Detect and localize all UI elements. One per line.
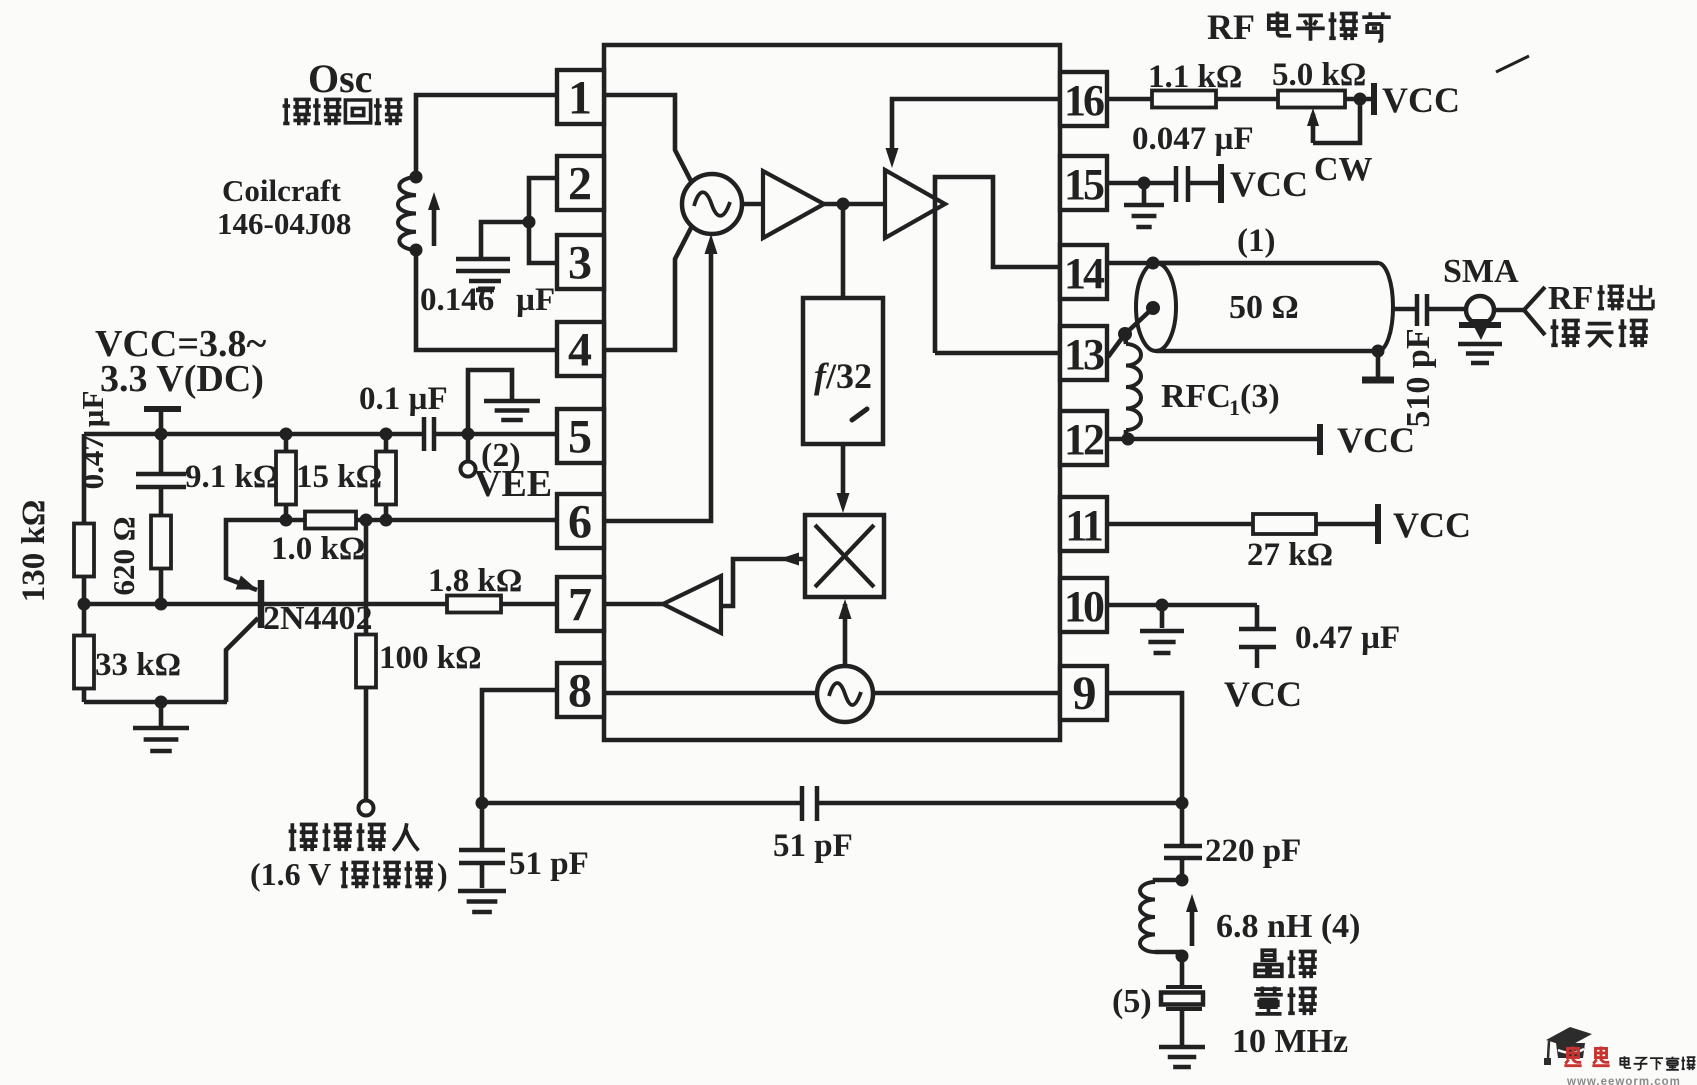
wire pin14 to coax: [1107, 261, 1200, 266]
logo www.eeworm.com: [1566, 1076, 1681, 1085]
node dot 51pF junction: [476, 797, 489, 810]
svg-text:RF: RF: [1207, 7, 1255, 47]
VCC bar pin12: [1317, 424, 1323, 455]
wire pin9 external: [1107, 693, 1182, 803]
label VEE: [474, 463, 552, 505]
label 0.146 uF: [420, 282, 555, 318]
divider f/32 box: [803, 298, 883, 444]
wire pin16 feedback with down arrow into A2: [886, 99, 1061, 168]
svg-text:6.8 nH (4): 6.8 nH (4): [1216, 908, 1361, 945]
svg-text:7: 7: [568, 579, 592, 632]
oscillator U1a circle: [682, 174, 742, 234]
wire pin12 to VCC: [1107, 437, 1320, 442]
ground under collector node: [133, 702, 189, 751]
wire crystal to ground: [1180, 1009, 1185, 1045]
wire 220pF to L3: [1180, 858, 1185, 880]
wire rail left down: [82, 434, 87, 524]
crystal Y1 plates: [1161, 987, 1203, 1009]
resistor R9 1.1k: [1152, 91, 1216, 108]
svg-text:8: 8: [568, 665, 592, 718]
svg-text:16: 16: [1064, 76, 1104, 125]
pin 11 box: [1060, 497, 1107, 551]
wire C6 to VCC: [1188, 181, 1221, 186]
svg-text:3.3 V(DC): 3.3 V(DC): [100, 358, 264, 400]
svg-text:33 kΩ: 33 kΩ: [95, 647, 181, 683]
label 146-04J08: [217, 206, 351, 241]
label VCC pin11: [1393, 505, 1471, 545]
svg-text:5: 5: [568, 411, 592, 464]
node dot under 15k: [380, 514, 393, 527]
wire coax to 510pF: [1392, 307, 1417, 312]
wire node to pin13: [1108, 334, 1125, 357]
label RFC1(3): [1161, 378, 1280, 420]
arrow L3 tuning up: [1186, 894, 1198, 946]
VEE terminal circle: [461, 434, 476, 477]
label 10 MHz: [1232, 1023, 1348, 1060]
arrow L1 tuning up: [428, 192, 440, 246]
label VCC=3.8~: [95, 323, 266, 365]
svg-text:Coilcraft: Coilcraft: [222, 173, 341, 208]
svg-text:100 kΩ: 100 kΩ: [379, 640, 482, 676]
label 3.3 V(DC): [100, 358, 264, 400]
wire pin10 external: [1107, 603, 1257, 608]
SMA center pin wedge: [1470, 319, 1491, 340]
resistor R8 100k: [356, 635, 376, 688]
resistor R2 33k: [74, 604, 94, 702]
wire A2 output step to pin14: [935, 177, 1060, 353]
node dot rail at 9.1k: [280, 428, 293, 441]
VCC bar pin11: [1375, 504, 1381, 544]
svg-text:2N4402: 2N4402: [263, 600, 373, 637]
wire mixer output to buffer with left arrow: [721, 553, 805, 607]
VCC bar pin15: [1218, 164, 1224, 203]
svg-text:VEE: VEE: [474, 463, 552, 505]
node dot emitter: [280, 514, 293, 527]
wire 100k branch: [364, 520, 369, 635]
label Coilcraft: [222, 173, 341, 208]
svg-text:www.eeworm.com: www.eeworm.com: [1566, 1076, 1681, 1085]
ground float above pin5: [468, 370, 540, 434]
capacitor C6 0.047uF plates: [1176, 166, 1188, 202]
pin 15 box: [1060, 156, 1107, 210]
wire 100k to data input: [364, 687, 369, 800]
svg-text:1: 1: [568, 72, 592, 125]
amplifier A2 triangle: [885, 170, 945, 238]
resistor R11 27k: [1253, 514, 1316, 534]
svg-text:6: 6: [568, 496, 592, 549]
node dot coax bottom right: [1372, 345, 1385, 358]
node dot pin9 junction: [1176, 797, 1189, 810]
svg-text:µF: µF: [516, 282, 555, 318]
capacitor C4 51pF plates: [802, 786, 817, 821]
pen mark in f/32 box: [852, 409, 867, 420]
label 51 pF mid: [773, 828, 853, 864]
pin 7 box: [557, 577, 604, 632]
wire R9 to pot: [1216, 97, 1278, 102]
svg-text:1.1 kΩ: 1.1 kΩ: [1148, 59, 1242, 95]
VCC supply bar: [144, 409, 181, 434]
wire R1 to base node: [82, 577, 87, 604]
SMA ground bar: [1459, 322, 1501, 328]
svg-text:(5): (5): [1112, 983, 1152, 1020]
svg-text:27 kΩ: 27 kΩ: [1247, 537, 1333, 573]
label CW: [1314, 151, 1373, 188]
data input terminal circle: [359, 801, 374, 816]
resistor R7 1.0k: [305, 512, 356, 529]
node dot rail at 15k: [380, 428, 393, 441]
label 到天线: [1551, 319, 1648, 347]
node dot base-mid: [155, 598, 168, 611]
label 2N4402: [263, 600, 373, 637]
wire to 220pF: [1180, 803, 1185, 845]
label 0.047 uF: [1132, 121, 1254, 157]
ground bar under coax: [1362, 351, 1394, 380]
label VCC under C8: [1224, 674, 1302, 714]
label 0.1 uF: [359, 381, 448, 417]
wire 51pF coupling line: [482, 801, 1182, 806]
svg-text:VCC: VCC: [1224, 674, 1302, 714]
transistor Q1 collector: [226, 618, 258, 702]
label 数据输入: [289, 823, 419, 851]
svg-text:15 kΩ: 15 kΩ: [296, 459, 382, 495]
wire L3 to crystal: [1180, 956, 1185, 986]
wire pin4 to oscillator: [604, 226, 692, 350]
svg-text:510 pF: 510 pF: [1400, 328, 1437, 427]
svg-text:13: 13: [1064, 330, 1104, 379]
pin 12 box: [1060, 411, 1107, 465]
node dot rail after cap: [462, 428, 475, 441]
wire pin6 to oscillator with up arrow: [604, 234, 718, 521]
node dot pin12: [1122, 433, 1135, 446]
node dot coax top: [1147, 257, 1160, 270]
capacitor C2 0.1uF plates: [424, 417, 434, 451]
logo 虫虫 red: [1564, 1046, 1609, 1065]
capacitor C3 0.47uF: [136, 434, 186, 516]
label SMA: [1443, 253, 1519, 290]
wire amp A1 to junction: [824, 202, 885, 207]
node junction dot: [837, 198, 850, 211]
wire pin1 to tank: [416, 95, 557, 177]
label 峰峰值: [341, 861, 433, 888]
capacitor C5 51pF shunt: [459, 803, 505, 888]
svg-text:0.47 µF: 0.47 µF: [75, 391, 110, 490]
label 50 Ohm: [1229, 289, 1299, 326]
label 5.0 kOhm: [1272, 57, 1366, 93]
wire node to capacitor C1: [481, 222, 529, 257]
node dot pin10: [1156, 599, 1169, 612]
wire pin8 to pin9 internal: [604, 691, 1060, 696]
logo 电子下载站: [1620, 1056, 1695, 1070]
wire 510pF to SMA: [1427, 307, 1466, 312]
wire pot to VCC: [1345, 97, 1374, 102]
capacitor C9 220pF plates: [1164, 846, 1202, 858]
svg-text:RF: RF: [1548, 280, 1593, 317]
label 谐振回路: [283, 98, 403, 125]
svg-text:51 pF: 51 pF: [773, 828, 853, 864]
svg-text:VCC: VCC: [1393, 505, 1471, 545]
label 0.47 uF right: [1295, 620, 1400, 656]
svg-text:3: 3: [568, 237, 592, 290]
wire pin15 external: [1107, 181, 1176, 186]
arrow f/32 to mixer: [837, 444, 850, 513]
potentiometer R10 5.0k: [1278, 91, 1345, 108]
buffer A3 triangle: [663, 576, 721, 633]
svg-text:10 MHz: 10 MHz: [1232, 1023, 1348, 1060]
pin 10 box: [1060, 578, 1107, 632]
svg-text:SMA: SMA: [1443, 253, 1519, 290]
label 基波: [1254, 987, 1317, 1016]
coax cable body: [1153, 263, 1393, 351]
arrow osc2 to mixer: [839, 599, 852, 666]
node dot rail at 130k: [155, 428, 168, 441]
svg-text:51 pF: 51 pF: [509, 846, 589, 882]
inductor L3 6.8nH coil: [1140, 880, 1182, 952]
svg-text:VCC: VCC: [1382, 80, 1460, 120]
label 6.8 nH (4): [1216, 908, 1361, 945]
wire SMA to output: [1494, 308, 1524, 313]
node dot pot end: [1354, 93, 1367, 106]
ground under C5: [458, 891, 506, 912]
node dot L3 bottom: [1176, 950, 1189, 963]
ground under pin10 dot: [1140, 605, 1184, 653]
inductor L1 Coilcraft coil: [398, 177, 416, 250]
wire bottom to collector: [84, 700, 227, 705]
label (1.6 V peak: [250, 856, 331, 892]
scan mark top: [1496, 56, 1529, 72]
svg-text:0.1 µF: 0.1 µF: [359, 381, 448, 417]
svg-text:2: 2: [568, 158, 592, 211]
label VCC pin12: [1337, 420, 1415, 460]
wire buffer to pin7: [604, 602, 663, 607]
svg-text:5.0 kΩ: 5.0 kΩ: [1272, 57, 1366, 93]
label 1.1 kOhm: [1148, 59, 1242, 95]
coax inner conductor dot: [1146, 301, 1160, 315]
svg-text:1: 1: [1229, 395, 1240, 420]
wire step to pin13: [935, 351, 1060, 356]
wire tank to pin4: [416, 250, 557, 350]
ground under pin15 dot: [1124, 183, 1164, 227]
node dot pin15: [1138, 177, 1151, 190]
resistor R3 620: [151, 516, 171, 605]
inductor L2 RFC coil: [1125, 334, 1141, 439]
svg-text:12: 12: [1064, 415, 1104, 464]
pot wiper arrow: [1307, 99, 1360, 143]
svg-text:4: 4: [568, 324, 592, 377]
wire inner to node: [1125, 308, 1153, 334]
label 15 kOhm: [296, 459, 382, 495]
pin 5 box: [557, 409, 604, 464]
label 220 pF: [1205, 833, 1301, 869]
svg-text:0.47 µF: 0.47 µF: [1295, 620, 1400, 656]
label VCC pin15: [1230, 164, 1308, 204]
svg-text:): ): [437, 856, 448, 892]
label RF输出: [1548, 280, 1653, 317]
node dot L3 top: [1176, 874, 1189, 887]
SMA connector circle: [1466, 296, 1494, 324]
label 0.47 uF: [75, 391, 110, 490]
coax left ellipse: [1136, 263, 1176, 351]
wire junction to f/32: [841, 204, 846, 298]
capacitor C8 0.47uF: [1239, 605, 1276, 668]
svg-text:1.8 kΩ: 1.8 kΩ: [428, 563, 522, 599]
IC body MC2833 outline: [604, 45, 1060, 740]
amplifier A1 triangle: [763, 171, 824, 238]
pin 3 box: [557, 235, 604, 290]
wire node to pin2: [529, 178, 557, 222]
wire pin8 external: [482, 690, 557, 803]
ground under crystal: [1159, 1047, 1205, 1067]
svg-text:15: 15: [1064, 160, 1104, 209]
label 51 pF left: [509, 846, 589, 882]
svg-text:RFC: RFC: [1161, 378, 1231, 415]
VCC rail wire: [84, 432, 557, 437]
node dot pins2-3: [523, 216, 536, 229]
transistor Q1 emitter with arrow: [226, 520, 286, 590]
label 100 kOhm: [379, 640, 482, 676]
label (1): [1237, 223, 1275, 259]
label 510 pF: [1400, 328, 1437, 427]
pin 8 box: [557, 663, 604, 718]
capacitor C1 0.146uF plates: [456, 259, 510, 271]
RF output chevron: [1524, 287, 1545, 335]
resistor R5 9.1k: [276, 434, 296, 520]
label 620 Ohm: [106, 516, 141, 595]
svg-text:146-04J08: 146-04J08: [217, 206, 351, 241]
pin 2 box: [557, 156, 604, 211]
pin 13 box: [1060, 326, 1107, 380]
wire osc to amp: [742, 202, 763, 207]
svg-text:220 pF: 220 pF: [1205, 833, 1301, 869]
node dot tank bottom: [410, 244, 423, 257]
svg-text:0.047 µF: 0.047 µF: [1132, 121, 1254, 157]
svg-text:1.0 kΩ: 1.0 kΩ: [271, 531, 365, 567]
label close paren: [437, 856, 448, 892]
VCC bar pin16: [1371, 83, 1377, 115]
ground under SMA: [1458, 344, 1502, 363]
wire node to pin3: [529, 222, 557, 263]
transistor Q1 2N4402 base bar: [258, 580, 265, 628]
wire R11 to VCC: [1316, 522, 1376, 527]
pin 16 box: [1060, 72, 1107, 126]
label 1.8 kOhm: [428, 563, 522, 599]
svg-text:f/32: f/32: [814, 356, 872, 396]
svg-text:9: 9: [1073, 667, 1096, 720]
wire pin16 to R9: [1107, 97, 1152, 102]
svg-text:VCC: VCC: [1230, 164, 1308, 204]
label 33 kOhm: [95, 647, 181, 683]
resistor R4 1.8k: [447, 596, 501, 613]
node dot tank top: [410, 171, 423, 184]
pin 9 box: [1060, 666, 1107, 720]
label (5): [1112, 983, 1152, 1020]
svg-text:10: 10: [1064, 582, 1104, 631]
svg-text:9.1 kΩ: 9.1 kΩ: [185, 459, 279, 495]
label 晶振: [1255, 950, 1317, 978]
wire pin11 to R11: [1107, 522, 1253, 527]
label 27 kOhm: [1247, 537, 1333, 573]
node dot after 1.0k: [360, 514, 373, 527]
svg-text:(1): (1): [1237, 223, 1275, 259]
node dot base-left: [78, 598, 91, 611]
logo graduation cap: [1544, 1027, 1592, 1065]
svg-text:130 kΩ: 130 kΩ: [16, 500, 52, 603]
oscillator U1b circle: [817, 666, 873, 722]
node dot collector-gnd: [155, 696, 168, 709]
label RF 电平调节: [1207, 7, 1391, 47]
wire emitter run: [286, 518, 305, 523]
label 130 kOhm: [16, 500, 52, 603]
svg-text:11: 11: [1065, 501, 1102, 550]
wire pin1 to oscillator: [604, 95, 692, 183]
label Osc: [308, 56, 372, 101]
label (2): [481, 437, 521, 474]
resistor R1 130k: [74, 524, 94, 577]
svg-text:(3): (3): [1240, 378, 1280, 415]
svg-text:(1.6 V: (1.6 V: [250, 856, 331, 892]
node dot RFC top: [1118, 327, 1132, 341]
svg-text:14: 14: [1064, 249, 1105, 298]
mixer M1 box with X: [805, 515, 884, 597]
pin 6 box: [557, 494, 604, 549]
wire 1.0k to pin6: [356, 518, 557, 523]
pin 14 box: [1060, 245, 1107, 299]
ground under C1: [469, 281, 501, 290]
svg-text:620 Ω: 620 Ω: [106, 516, 141, 595]
capacitor C7 510pF plates: [1417, 294, 1427, 326]
base wire to pin7: [84, 602, 557, 607]
label 9.1 kOhm: [185, 459, 279, 495]
label VCC pin16: [1382, 80, 1460, 120]
resistor R6 15k: [376, 434, 396, 520]
label 1.0 kOhm: [271, 531, 365, 567]
svg-text:Osc: Osc: [308, 56, 372, 101]
svg-text:50 Ω: 50 Ω: [1229, 289, 1299, 326]
pin 4 box: [557, 322, 604, 377]
pin 1 box: [557, 70, 604, 125]
svg-text:CW: CW: [1314, 151, 1373, 188]
